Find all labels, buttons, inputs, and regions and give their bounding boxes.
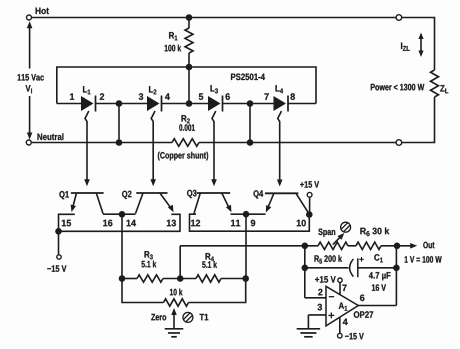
- label R1: [169, 32, 177, 40]
- node neutral left junction: [116, 139, 123, 146]
- load ZL: [431, 70, 449, 97]
- transistor Q3: [187, 190, 231, 214]
- node pin10 junction: [306, 211, 313, 218]
- label Power limit: [371, 84, 425, 91]
- label 4.7uF: [369, 272, 391, 280]
- wire feedback row right: [358, 267, 397, 269]
- wire pins11-9 down: [245, 214, 247, 278]
- label 1V=100W: [405, 256, 442, 263]
- wire pot loop right: [189, 279, 246, 303]
- wire opto body left: [59, 214, 181, 231]
- node pin11-9 junction: [243, 211, 250, 218]
- potentiometer R5 200k Span: [318, 242, 348, 249]
- node Hot-R1 junction: [186, 14, 193, 21]
- wire noninverting input: [308, 304, 326, 329]
- node R3-R4 junction: [177, 275, 184, 282]
- wire Hot line: [32, 17, 396, 19]
- wire pins16-14 down: [121, 214, 123, 278]
- wire LED row seg4: [223, 103, 274, 105]
- current IZL arrow: [401, 33, 424, 58]
- opto-LED L4: [265, 85, 295, 111]
- node pin2-pin3 junction: [116, 100, 123, 107]
- wire pin6-7 to neutral: [249, 104, 251, 143]
- transistor Q2: [122, 191, 173, 214]
- node R3 left junction: [119, 275, 126, 282]
- pin labels left box: [62, 220, 176, 227]
- node Neutral terminal: [26, 133, 63, 145]
- wire LED top connector: [57, 67, 316, 104]
- node minus15 bus junction: [55, 228, 62, 235]
- trimmer symbol Span: [341, 222, 351, 232]
- source 115 Vac V1 arrows: [27, 21, 33, 139]
- light arrow L4 to Q4: [277, 111, 283, 187]
- wire pin16-14 segment: [103, 213, 136, 215]
- label C1: [374, 254, 383, 262]
- wiper arrow Span: [333, 233, 345, 245]
- wire R3-R4 mid: [163, 278, 196, 280]
- node pin4-pin5 junction: [186, 100, 193, 107]
- wire Neutral left: [32, 142, 172, 144]
- light arrow L3 to Q3: [211, 111, 217, 186]
- wire LED row seg3: [162, 103, 209, 105]
- label PS2501-4: [231, 74, 265, 81]
- resistor R4 5.1k: [196, 253, 221, 282]
- label R2: [182, 115, 190, 123]
- node load top terminal: [396, 15, 402, 21]
- light arrow L1 to Q1: [84, 111, 90, 186]
- trimmer symbol T1: [183, 312, 193, 322]
- wire output riser: [395, 246, 397, 306]
- arrow Out: [400, 242, 435, 249]
- label 115 Vac: [18, 74, 44, 81]
- node load bottom terminal: [396, 140, 402, 146]
- wire Neutral right: [199, 142, 396, 144]
- label Span: [318, 229, 335, 237]
- wire R4 right: [221, 278, 246, 280]
- wire summing riser: [179, 246, 181, 279]
- transistor Q4: [254, 190, 310, 214]
- supply -15V op-amp pin4: [338, 317, 364, 339]
- ground op-amp: [297, 329, 321, 337]
- node output junction: [394, 243, 401, 250]
- opto-LED L2: [139, 86, 170, 111]
- wiper arrow T1: [171, 308, 177, 329]
- label 100 k: [165, 45, 182, 52]
- node R4 right junction: [242, 275, 249, 282]
- ground T1: [165, 329, 184, 337]
- label 16 V: [372, 284, 386, 291]
- resistor R1 100k: [185, 18, 193, 104]
- label 0.001: [179, 124, 195, 131]
- node pin16-14 junction: [119, 211, 126, 218]
- node R1 box junction: [186, 64, 193, 71]
- wire inverting input: [305, 289, 326, 298]
- node summing junction: [302, 243, 309, 250]
- node feedback right junction: [393, 265, 400, 272]
- wire feedback row left: [305, 267, 349, 269]
- pin labels right box: [191, 220, 306, 227]
- resistor R2 0.001 copper shunt: [172, 139, 199, 147]
- potentiometer 10k T1: [164, 289, 189, 307]
- supply -15V terminal: [47, 231, 66, 272]
- transistor Q1: [59, 191, 103, 214]
- wire R6 to out: [381, 245, 397, 247]
- wire feedback left riser: [304, 246, 306, 298]
- op-amp A1 OP27: [326, 286, 373, 326]
- wire pin2-3 to neutral: [118, 104, 120, 143]
- wire R3 left: [122, 278, 137, 280]
- wire output row left: [180, 245, 318, 247]
- wire LED row seg1: [57, 103, 81, 105]
- label Copper shunt: [158, 152, 208, 161]
- wire op-amp output: [358, 295, 396, 306]
- wire R5-R6: [348, 245, 356, 247]
- node neutral right junction: [247, 139, 254, 146]
- opto-LED L1: [70, 86, 104, 111]
- opto-LED L3: [199, 85, 230, 111]
- label Zero: [151, 314, 166, 321]
- resistor R6 30k: [356, 242, 381, 249]
- supply +15V terminal top: [300, 181, 319, 214]
- light arrow L2 to Q2: [150, 111, 156, 186]
- supply +15V op-amp pin7: [315, 276, 347, 294]
- wire opto body right: [190, 214, 310, 231]
- node feedback left junction: [302, 265, 309, 272]
- node pin6-pin7 junction: [247, 100, 254, 107]
- label T1: [200, 314, 209, 320]
- wire Hot right stub: [402, 17, 435, 70]
- node Hot terminal: [27, 8, 49, 20]
- label V1: [26, 85, 32, 93]
- wire LED row seg2: [96, 103, 148, 105]
- wire right edge lower: [402, 97, 435, 143]
- resistor R3 5.1k: [137, 251, 163, 282]
- capacitor C1 4.7uF: [350, 257, 364, 277]
- wire LED row seg5: [288, 103, 316, 105]
- label R5 200 k: [315, 255, 343, 264]
- wire pin11-9 segment: [231, 213, 266, 215]
- wire pot loop left: [122, 279, 164, 303]
- label R6 30 k: [360, 228, 389, 237]
